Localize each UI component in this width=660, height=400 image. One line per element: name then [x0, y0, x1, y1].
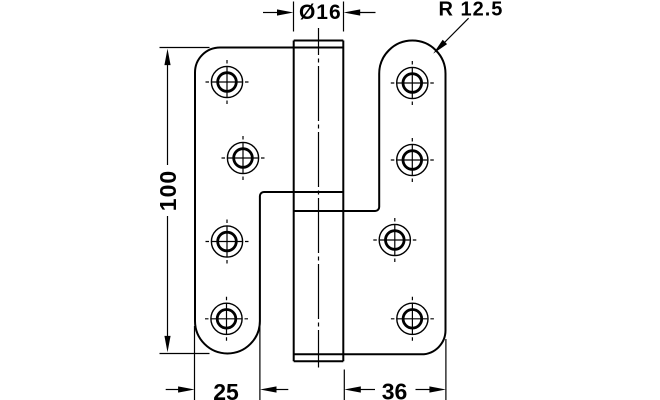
screw hole R3: [373, 218, 416, 262]
dim Ø16 left extension line: [293, 2, 295, 32]
dim 100 top extension line: [160, 47, 210, 49]
R 12.5 leader arrowhead: [433, 40, 447, 54]
svg-text:R 12.5: R 12.5: [439, 0, 504, 20]
barrel right edge: [342, 41, 344, 362]
screw hole R2: [391, 138, 434, 182]
screw hole L3: [206, 220, 249, 264]
dim Ø16 left arrow: [263, 12, 279, 14]
dim 100 bottom extension line: [160, 353, 210, 355]
left leaf outline: [195, 47, 343, 353]
barrel left edge: [293, 41, 295, 362]
dim 36 right arrow: [416, 389, 432, 391]
dim Ø16 right arrow: [358, 12, 376, 14]
screw hole L1: [206, 60, 249, 104]
svg-text:25: 25: [213, 379, 239, 400]
dim 25 left extension line: [194, 326, 196, 400]
svg-text:100: 100: [155, 170, 181, 211]
screw hole L4: [205, 297, 248, 341]
dim Ø16 right extension line: [343, 2, 345, 32]
right leaf outline: [294, 41, 446, 355]
dim 25 right arrow: [275, 389, 289, 391]
dim 25 left arrow: [166, 389, 180, 391]
barrel top edge: [294, 40, 344, 42]
dim 36 right extension line: [445, 339, 447, 400]
R 12.5 leader line: [441, 18, 469, 46]
dim 25 right extension line: [259, 326, 261, 400]
dim 100 lower line and arrow: [167, 216, 169, 338]
screw hole R1: [391, 61, 434, 105]
svg-text:36: 36: [382, 379, 408, 400]
barrel bottom edge: [294, 360, 344, 362]
svg-text:Ø16: Ø16: [299, 1, 342, 24]
dim 36 left extension line: [343, 370, 345, 400]
dim 36 left arrow: [359, 389, 375, 391]
barrel centerline: [318, 28, 320, 368]
screw hole L2: [222, 136, 265, 180]
dim 100 upper line and arrow: [167, 63, 169, 165]
screw hole R4: [391, 297, 434, 341]
